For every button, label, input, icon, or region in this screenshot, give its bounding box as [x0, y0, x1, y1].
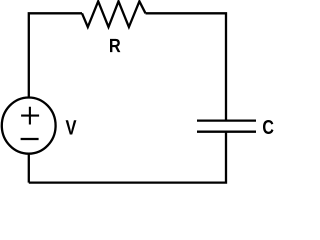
voltage source V (circle body): [2, 98, 56, 154]
wire bottom-right segment (from capacitor down, across bottom): [29, 132, 226, 183]
wire bottom-left segment (from bottom up to voltage source): [28, 154, 30, 183]
voltage source minus sign: [21, 138, 39, 140]
wire top-left segment (from voltage source top, up left side, across to resistor): [29, 13, 82, 97]
voltage source plus sign: [21, 107, 39, 125]
label V: [66, 120, 77, 134]
resistor R (zigzag): [82, 1, 146, 27]
label R: [110, 39, 120, 52]
capacitor C top plate: [197, 119, 256, 121]
label C: [263, 120, 274, 134]
wire top-right segment (from resistor across top, down right side to capacitor): [146, 13, 227, 120]
capacitor C bottom plate: [197, 131, 256, 133]
